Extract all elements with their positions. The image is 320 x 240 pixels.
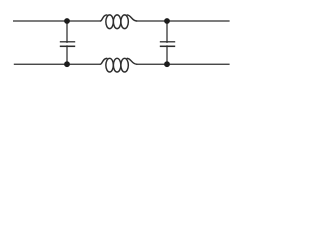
wire bottom-left <box>14 63 101 65</box>
junction node C1-bottom <box>64 61 70 67</box>
inductor exit arc <box>127 15 137 21</box>
wire top-right <box>136 20 229 22</box>
inductor entry arc <box>100 58 107 64</box>
capacitor C1 bottom plate <box>60 45 75 47</box>
capacitor C2 top lead <box>166 21 168 43</box>
capacitor C2 bottom lead <box>166 45 168 64</box>
inductor loop 3 <box>121 15 129 29</box>
capacitor C1 bottom lead <box>66 45 68 64</box>
junction node C1-top <box>64 18 70 24</box>
capacitor C2 bottom plate <box>160 45 175 47</box>
inductor loop 1 <box>106 15 114 29</box>
junction node C2-bottom <box>164 61 170 67</box>
wire top-left <box>13 20 101 22</box>
circuit schematic: balanced LC low-pass filter section <box>0 0 248 83</box>
wire bottom-right <box>136 63 229 65</box>
inductor entry arc <box>100 15 107 21</box>
inductor loop 1 <box>106 58 114 72</box>
capacitor C2 top plate <box>160 41 175 43</box>
inductor loop 2 <box>113 58 121 72</box>
inductor loop 2 <box>113 15 121 29</box>
junction node C2-top <box>164 18 170 24</box>
inductor exit arc <box>127 58 137 64</box>
capacitor C1 top plate <box>60 41 75 43</box>
capacitor C1 top lead <box>66 21 68 43</box>
inductor loop 3 <box>121 58 129 72</box>
